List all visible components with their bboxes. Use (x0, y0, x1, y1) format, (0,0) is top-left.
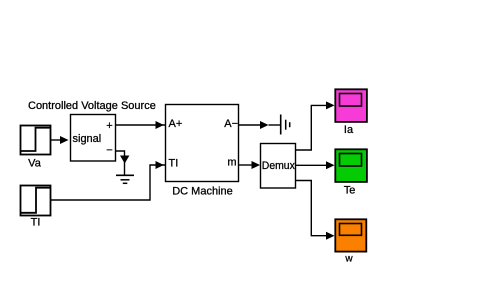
wire TI to DC Machine TI (51, 161, 166, 200)
wire Demux out2 to scope Te (296, 161, 335, 169)
svg-text:Controlled Voltage Source: Controlled Voltage Source (28, 100, 156, 112)
wire signal+ to DC Machine A+ (116, 121, 166, 129)
svg-text:m: m (227, 157, 236, 169)
scope w (335, 219, 366, 264)
ground G1 (116, 162, 134, 183)
svg-text:DC Machine: DC Machine (172, 186, 233, 198)
svg-text:Ia: Ia (344, 124, 354, 136)
wire DC Machine m to Demux (239, 161, 261, 169)
svg-text:Te: Te (344, 185, 356, 197)
svg-text:−: − (106, 145, 112, 157)
step source TI (21, 186, 51, 229)
svg-text:TI: TI (169, 158, 179, 170)
svg-text:+: + (106, 120, 112, 132)
svg-text:TI: TI (31, 217, 41, 229)
ground G2 (rotated termination) (281, 115, 290, 135)
wire Va to signal input (51, 136, 69, 144)
DC Machine block (166, 105, 239, 198)
svg-text:w: w (344, 254, 353, 265)
Demux block (261, 144, 296, 189)
wire Demux out3 to scope w (296, 181, 335, 240)
scope Te (335, 149, 367, 196)
scope Ia (335, 89, 367, 136)
step source Va (21, 126, 51, 170)
svg-text:Demux: Demux (262, 160, 295, 172)
svg-text:A+: A+ (169, 118, 183, 130)
wire Demux out1 to scope Ia (296, 101, 335, 150)
svg-text:signal: signal (73, 133, 102, 145)
svg-text:A−: A− (224, 118, 238, 130)
wire DC Machine A- to termination (239, 121, 281, 129)
wire signal- to ground (116, 151, 130, 164)
svg-text:Va: Va (28, 158, 42, 170)
controlled voltage source block U1 (signal) (71, 115, 116, 162)
